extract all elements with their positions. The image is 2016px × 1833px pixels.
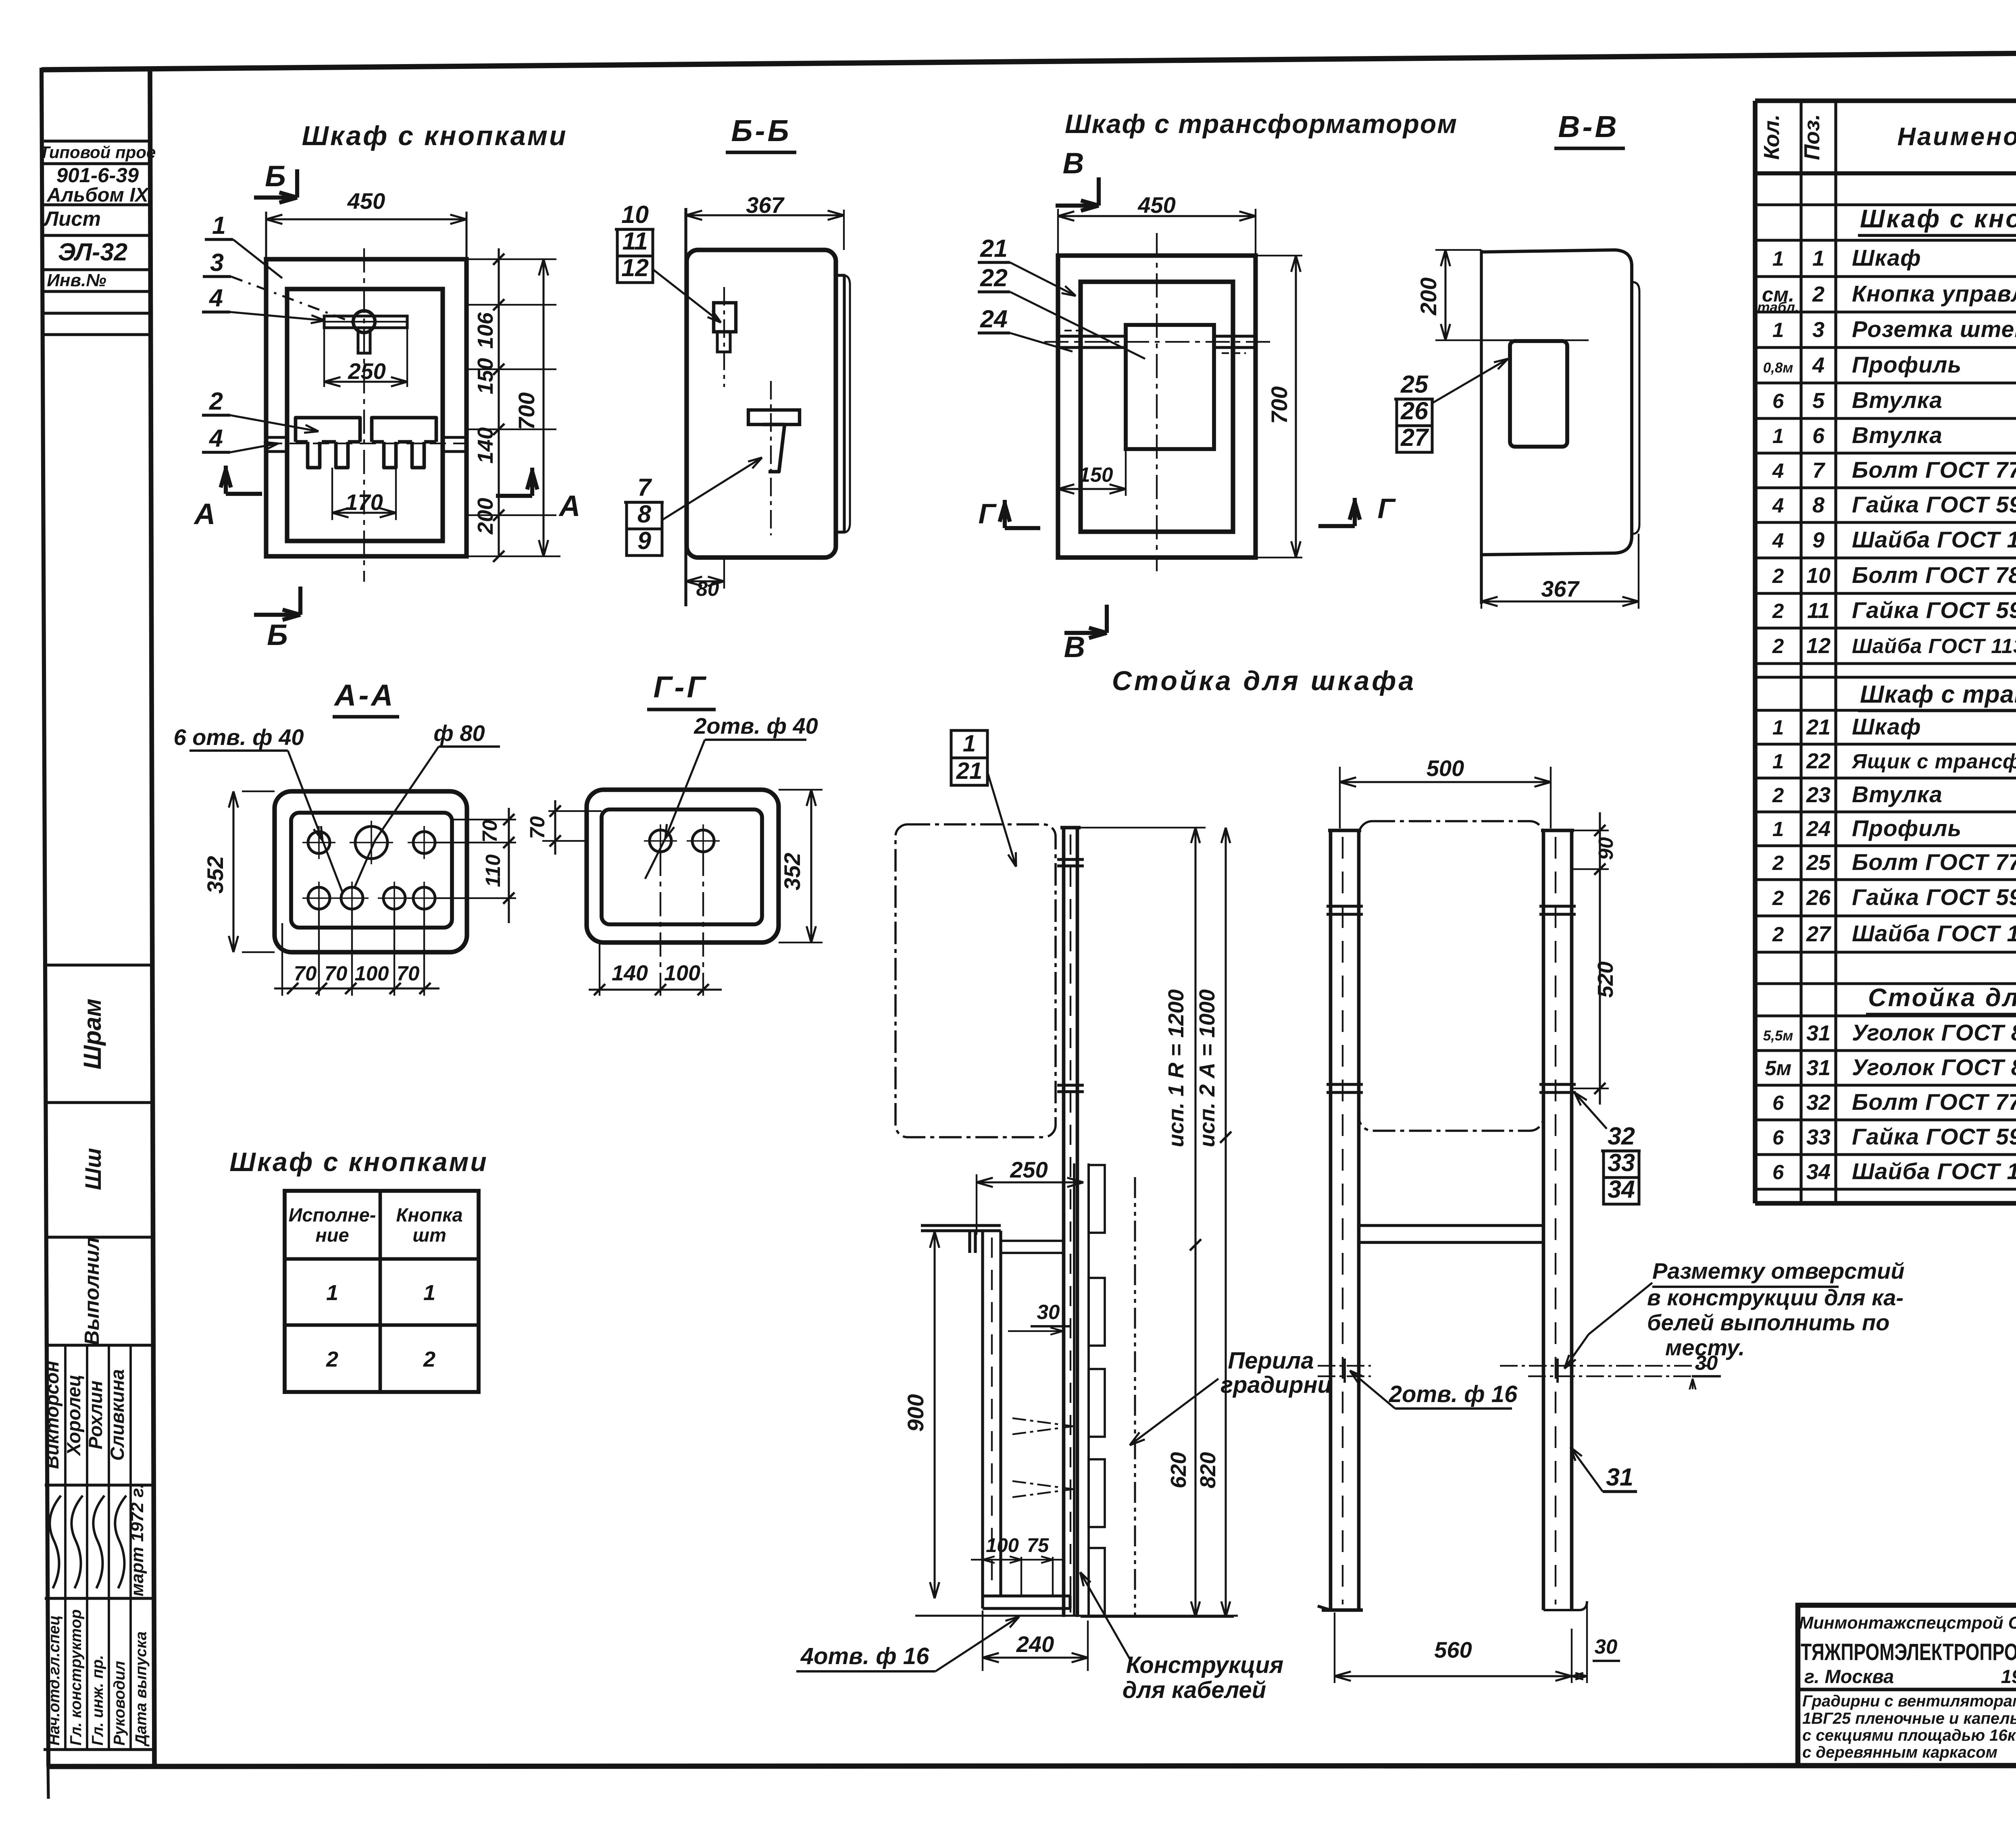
svg-text:с деревянным каркасом: с деревянным каркасом: [1802, 1744, 1997, 1761]
svg-text:Гл. конструктор: Гл. конструктор: [67, 1609, 85, 1746]
svg-text:75: 75: [1027, 1535, 1049, 1556]
svg-text:200: 200: [1416, 277, 1441, 315]
svg-text:22: 22: [980, 264, 1008, 291]
svg-text:500: 500: [1427, 755, 1464, 781]
svg-text:7: 7: [1812, 458, 1826, 483]
svg-text:Шш: Шш: [80, 1148, 106, 1190]
svg-text:март 1972 г.: март 1972 г.: [127, 1483, 147, 1596]
svg-text:Шкаф с трансформатором: Шкаф с трансформатором: [1065, 109, 1458, 139]
svg-text:4: 4: [1772, 494, 1784, 517]
svg-text:12: 12: [621, 254, 649, 281]
svg-text:1: 1: [1772, 716, 1784, 739]
svg-text:352: 352: [779, 853, 805, 890]
svg-text:1: 1: [1772, 318, 1784, 341]
svg-text:Уголок ГОСТ 8509-57: Уголок ГОСТ 8509-57: [1852, 1020, 2016, 1046]
svg-text:Шайба ГОСТ 11371-68: Шайба ГОСТ 11371-68: [1852, 921, 2016, 947]
svg-text:70: 70: [526, 816, 549, 839]
svg-text:700: 700: [1266, 386, 1292, 424]
svg-text:2: 2: [1772, 635, 1784, 657]
svg-text:106: 106: [473, 312, 498, 349]
svg-text:33: 33: [1608, 1149, 1635, 1176]
svg-text:2: 2: [1772, 923, 1784, 946]
svg-text:6: 6: [1812, 424, 1825, 448]
svg-text:А: А: [558, 490, 581, 522]
svg-text:21: 21: [956, 758, 983, 784]
svg-text:34: 34: [1806, 1160, 1831, 1184]
svg-text:Кол.: Кол.: [1760, 114, 1784, 160]
svg-text:2: 2: [1772, 886, 1784, 909]
svg-text:Болт ГОСТ 7798-62: Болт ГОСТ 7798-62: [1852, 1089, 2016, 1115]
svg-text:Разметку отверстий: Разметку отверстий: [1652, 1258, 1905, 1284]
svg-text:исп. 2 А = 1000: исп. 2 А = 1000: [1195, 989, 1219, 1147]
svg-text:Градирни с вентиляторами: Градирни с вентиляторами: [1802, 1692, 2016, 1710]
svg-text:Минмонтажспецстрой СССР: Минмонтажспецстрой СССР: [1799, 1613, 2016, 1633]
svg-text:2отв. ф 40: 2отв. ф 40: [694, 713, 818, 739]
svg-text:с секциями площадью 16кв.м: с секциями площадью 16кв.м: [1802, 1727, 2016, 1744]
svg-text:450: 450: [1137, 192, 1175, 218]
svg-text:24: 24: [980, 305, 1008, 333]
svg-text:ф 80: ф 80: [433, 720, 485, 746]
svg-text:367: 367: [746, 192, 785, 218]
svg-text:Б: Б: [265, 160, 286, 193]
svg-text:11: 11: [1807, 599, 1830, 623]
svg-text:Г: Г: [979, 498, 997, 529]
svg-text:5м: 5м: [1765, 1057, 1791, 1080]
svg-text:А: А: [194, 498, 216, 531]
svg-text:2: 2: [1772, 564, 1784, 587]
svg-text:Шкаф с кнопками: Шкаф с кнопками: [1860, 205, 2016, 233]
svg-text:32: 32: [1806, 1090, 1831, 1115]
svg-text:Б: Б: [267, 619, 288, 651]
svg-text:33: 33: [1806, 1125, 1831, 1149]
svg-text:Гайка ГОСТ 5915-70: Гайка ГОСТ 5915-70: [1852, 492, 2016, 518]
svg-text:1: 1: [326, 1281, 338, 1305]
svg-text:3: 3: [1812, 318, 1824, 342]
svg-text:ТЯЖПРОМЭЛЕКТРОПРОЕКТ: ТЯЖПРОМЭЛЕКТРОПРОЕКТ: [1801, 1639, 2016, 1665]
svg-text:30: 30: [1595, 1635, 1618, 1658]
svg-text:Лист: Лист: [43, 207, 101, 230]
svg-text:2: 2: [423, 1347, 435, 1371]
svg-text:31: 31: [1806, 1021, 1831, 1045]
svg-text:27: 27: [1806, 922, 1832, 946]
svg-text:8: 8: [1812, 493, 1824, 517]
svg-text:В-В: В-В: [1558, 110, 1619, 144]
svg-text:Ящик с трансформатором: Ящик с трансформатором: [1851, 750, 2016, 773]
svg-text:Шайба ГОСТ 11371-68: Шайба ГОСТ 11371-68: [1852, 1159, 2016, 1184]
svg-text:240: 240: [1016, 1631, 1054, 1657]
svg-text:Альбом IX: Альбом IX: [46, 184, 150, 206]
svg-text:34: 34: [1608, 1176, 1635, 1203]
svg-text:30: 30: [1037, 1300, 1060, 1323]
svg-text:90: 90: [1594, 837, 1617, 860]
svg-text:901-6-39: 901-6-39: [56, 164, 139, 187]
svg-text:100: 100: [354, 962, 389, 985]
svg-text:Гайка ГОСТ 5915-70: Гайка ГОСТ 5915-70: [1852, 1124, 2016, 1150]
svg-text:Стойка для шкафа: Стойка для шкафа: [1868, 984, 2016, 1012]
svg-text:24: 24: [1806, 817, 1831, 841]
svg-text:2: 2: [1772, 599, 1784, 622]
svg-text:Гайка ГОСТ 5915-70: Гайка ГОСТ 5915-70: [1852, 597, 2016, 623]
svg-text:исп. 1 R = 1200: исп. 1 R = 1200: [1164, 989, 1188, 1147]
svg-text:Инв.№: Инв.№: [47, 270, 106, 290]
svg-text:Гайка ГОСТ 5915-70: Гайка ГОСТ 5915-70: [1852, 884, 2016, 910]
svg-text:Выполнил: Выполнил: [80, 1237, 103, 1345]
svg-text:В: В: [1064, 631, 1085, 664]
svg-text:1: 1: [423, 1281, 435, 1305]
svg-text:6: 6: [1772, 1161, 1784, 1184]
svg-text:100: 100: [986, 1535, 1019, 1556]
svg-text:Болт ГОСТ 7798-62: Болт ГОСТ 7798-62: [1852, 457, 2016, 483]
svg-text:12: 12: [1806, 634, 1831, 658]
svg-text:Шрам: Шрам: [79, 999, 106, 1069]
svg-text:Шкаф: Шкаф: [1852, 245, 1921, 271]
svg-text:Руководил: Руководил: [111, 1661, 128, 1746]
svg-text:Профиль: Профиль: [1852, 816, 1962, 841]
svg-text:Наименование: Наименование: [1897, 123, 2016, 151]
svg-text:1: 1: [963, 730, 976, 757]
svg-text:Втулка: Втулка: [1852, 422, 1943, 448]
svg-text:Исполне-: Исполне-: [289, 1204, 376, 1225]
svg-text:1: 1: [1772, 247, 1784, 270]
svg-text:450: 450: [347, 188, 385, 214]
svg-text:9: 9: [1812, 528, 1824, 552]
svg-text:1: 1: [1772, 818, 1784, 841]
svg-text:7: 7: [637, 474, 652, 501]
svg-text:шт: шт: [412, 1224, 446, 1246]
svg-text:520: 520: [1593, 961, 1618, 998]
svg-text:Болт ГОСТ 7805-62: Болт ГОСТ 7805-62: [1852, 562, 2016, 588]
svg-text:150: 150: [1079, 463, 1113, 486]
svg-text:5,5м: 5,5м: [1763, 1028, 1793, 1044]
svg-text:31: 31: [1606, 1463, 1633, 1491]
svg-text:23: 23: [1806, 783, 1831, 807]
svg-text:Поз.: Поз.: [1800, 114, 1824, 160]
svg-text:1: 1: [1772, 750, 1784, 773]
svg-text:4: 4: [208, 284, 223, 312]
svg-text:градирни: градирни: [1220, 1372, 1332, 1398]
svg-text:200: 200: [473, 498, 498, 535]
svg-text:150: 150: [473, 358, 498, 394]
svg-text:4: 4: [1772, 529, 1784, 552]
svg-text:27: 27: [1400, 424, 1429, 451]
svg-text:Дата выпуска: Дата выпуска: [133, 1631, 150, 1747]
svg-text:Викторсон: Викторсон: [41, 1361, 62, 1469]
svg-text:6: 6: [1772, 389, 1784, 412]
svg-text:0,8м: 0,8м: [1763, 360, 1793, 376]
svg-text:2: 2: [209, 387, 223, 415]
svg-text:ЭЛ-32: ЭЛ-32: [58, 238, 127, 266]
svg-text:Шкаф: Шкаф: [1852, 714, 1921, 740]
svg-text:170: 170: [345, 489, 383, 515]
svg-text:110: 110: [481, 854, 504, 887]
svg-text:Розетка штепсельная: Розетка штепсельная: [1852, 316, 2016, 342]
svg-text:г. Москва: г. Москва: [1804, 1666, 1894, 1687]
svg-text:Б-Б: Б-Б: [731, 114, 791, 148]
svg-text:Перила: Перила: [1228, 1348, 1314, 1374]
svg-text:Типовой прое: Типовой прое: [40, 143, 156, 162]
svg-text:2: 2: [1772, 851, 1784, 874]
svg-text:700: 700: [514, 392, 539, 430]
svg-text:Гл. инж. пр.: Гл. инж. пр.: [89, 1655, 106, 1746]
svg-text:2: 2: [1812, 282, 1824, 306]
svg-text:Втулка: Втулка: [1852, 387, 1943, 413]
svg-text:Г: Г: [1378, 493, 1396, 524]
svg-text:26: 26: [1400, 397, 1429, 424]
svg-text:месту.: месту.: [1665, 1335, 1745, 1360]
svg-text:2: 2: [326, 1347, 338, 1371]
svg-text:4: 4: [1812, 353, 1824, 377]
svg-text:1ВГ25 пленочные и капельные: 1ВГ25 пленочные и капельные: [1802, 1710, 2016, 1727]
svg-text:197?г: 197?г: [2001, 1666, 2016, 1687]
svg-text:Хоролец: Хоролец: [63, 1375, 84, 1457]
svg-text:6 отв. ф 40: 6 отв. ф 40: [173, 724, 304, 750]
svg-text:100: 100: [664, 961, 700, 985]
svg-text:70: 70: [325, 962, 348, 985]
svg-text:352: 352: [202, 856, 228, 893]
svg-text:70: 70: [294, 962, 317, 985]
svg-text:31: 31: [1806, 1056, 1831, 1080]
svg-text:Стойка для шкафа: Стойка для шкафа: [1112, 666, 1416, 696]
svg-text:70: 70: [478, 820, 501, 843]
svg-text:21: 21: [980, 235, 1008, 262]
svg-text:140: 140: [473, 427, 498, 464]
svg-text:Кнопка: Кнопка: [396, 1204, 462, 1225]
svg-text:620: 620: [1166, 1452, 1191, 1488]
svg-text:Шайба ГОСТ 11371-68: Шайба ГОСТ 11371-68: [1852, 527, 2016, 553]
svg-text:Сливкина: Сливкина: [106, 1369, 128, 1461]
svg-text:для кабелей: для кабелей: [1123, 1677, 1266, 1703]
svg-text:Уголок ГОСТ 8509-57: Уголок ГОСТ 8509-57: [1852, 1055, 2016, 1080]
svg-text:22: 22: [1806, 749, 1831, 773]
svg-text:Конструкция: Конструкция: [1126, 1652, 1283, 1678]
svg-text:70: 70: [397, 962, 420, 985]
svg-text:26: 26: [1806, 886, 1831, 910]
svg-text:Болт ГОСТ 7798-62: Болт ГОСТ 7798-62: [1852, 849, 2016, 875]
svg-text:6: 6: [1772, 1091, 1784, 1114]
svg-text:10: 10: [621, 201, 649, 228]
svg-text:Г-Г: Г-Г: [653, 670, 708, 704]
svg-text:Нач.отд.гл.спец: Нач.отд.гл.спец: [46, 1615, 63, 1746]
svg-text:Кнопка управления: Кнопка управления: [1852, 281, 2016, 307]
svg-text:Шайба ГОСТ 11371-68: Шайба ГОСТ 11371-68: [1852, 635, 2016, 657]
svg-text:10: 10: [1806, 564, 1831, 588]
svg-text:820: 820: [1196, 1452, 1220, 1488]
svg-text:4отв. ф 16: 4отв. ф 16: [800, 1643, 929, 1669]
svg-text:4: 4: [1772, 459, 1784, 482]
svg-text:3: 3: [210, 249, 224, 276]
svg-text:2отв. ф 16: 2отв. ф 16: [1389, 1381, 1518, 1407]
svg-text:900: 900: [903, 1394, 928, 1431]
svg-text:Шкаф с трансформатором: Шкаф с трансформатором: [1860, 680, 2016, 708]
svg-text:В: В: [1063, 147, 1084, 180]
svg-text:Втулка: Втулка: [1852, 782, 1943, 807]
svg-text:в конструкции для ка-: в конструкции для ка-: [1647, 1285, 1904, 1310]
svg-text:250: 250: [348, 358, 385, 384]
svg-text:Шкаф с кнопками: Шкаф с кнопками: [229, 1147, 488, 1177]
svg-text:560: 560: [1434, 1637, 1472, 1662]
svg-text:367: 367: [1541, 576, 1580, 601]
svg-text:2: 2: [1772, 784, 1784, 807]
svg-text:250: 250: [1010, 1157, 1048, 1182]
svg-text:6: 6: [1772, 1126, 1784, 1149]
svg-text:5: 5: [1812, 389, 1825, 413]
svg-text:А-А: А-А: [333, 678, 395, 712]
svg-text:80: 80: [696, 577, 719, 600]
svg-text:Рохлин: Рохлин: [85, 1381, 106, 1450]
svg-text:1: 1: [1772, 424, 1784, 447]
svg-text:табл.: табл.: [1757, 300, 1799, 315]
svg-text:25: 25: [1400, 370, 1429, 398]
svg-text:32: 32: [1608, 1122, 1635, 1150]
svg-text:21: 21: [1806, 715, 1831, 739]
svg-text:25: 25: [1806, 851, 1831, 875]
svg-text:1: 1: [1812, 246, 1824, 270]
svg-text:белей выполнить по: белей выполнить по: [1647, 1310, 1889, 1335]
svg-text:140: 140: [612, 961, 648, 985]
svg-text:Профиль: Профиль: [1852, 352, 1962, 378]
svg-text:1: 1: [212, 212, 226, 239]
svg-text:9: 9: [637, 527, 651, 554]
svg-text:Шкаф с кнопками: Шкаф с кнопками: [302, 121, 567, 151]
svg-text:11: 11: [622, 227, 648, 255]
svg-text:ние: ние: [315, 1224, 349, 1246]
svg-text:8: 8: [637, 500, 651, 528]
svg-text:4: 4: [208, 424, 223, 452]
